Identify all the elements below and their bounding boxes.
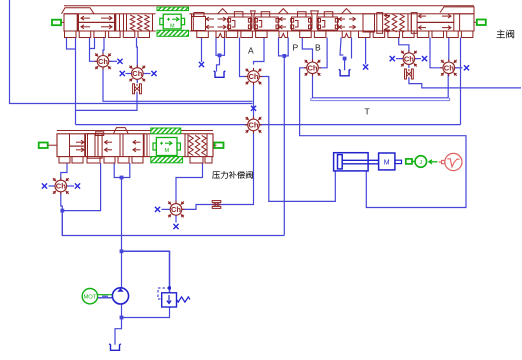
wire A port to Ch3 left: [240, 38, 248, 77]
wire X stub port: [201, 38, 203, 63]
port X stub tank right: [363, 64, 368, 69]
junction comp to pump: [120, 176, 124, 180]
signal source wave: [439, 153, 462, 170]
shaft: [98, 295, 112, 298]
main valve box section: [192, 13, 206, 31]
svg-text:Ch: Ch: [171, 205, 181, 214]
main valve section5 arrows: [417, 7, 454, 30]
port X right of Ch8: [67, 183, 80, 188]
wire pump riser: [122, 163, 130, 288]
main valve spring left: [130, 14, 152, 31]
chamber Ch8: [52, 177, 69, 194]
svg-text:M: M: [165, 148, 170, 154]
chamber Ch4: [304, 59, 321, 76]
wire valve port to Ch7 left: [430, 38, 442, 68]
main valve proportional solenoid green: [156, 6, 190, 37]
main valve spring arrows: [385, 14, 391, 33]
node label T: [365, 107, 370, 117]
main valve right divider: [408, 14, 411, 31]
port X stub end: [199, 62, 204, 67]
compensator top hump: [114, 128, 129, 134]
wire tank branch right second: [351, 38, 353, 59]
main valve section3 arrows: [278, 9, 288, 29]
main valve diamond divider 2: [311, 11, 319, 31]
main valve left hump: [62, 8, 95, 14]
svg-text:Ch: Ch: [98, 57, 108, 66]
svg-text:B: B: [315, 43, 321, 53]
wire B line Ch4 to cylinder rod side: [300, 68, 466, 208]
svg-text:Ch: Ch: [444, 64, 454, 73]
main valve right box1: [363, 14, 375, 32]
compensator valve dividers: [70, 134, 208, 157]
hydraulic cylinder: [334, 153, 379, 171]
wire T return riser left: [75, 38, 77, 125]
main valve section2 arrows: [206, 9, 228, 29]
main valve narrow section: [120, 14, 127, 31]
wire valve port to Ch6 top: [399, 38, 409, 53]
sensor green square: [406, 159, 412, 164]
tank under main valve right: [339, 59, 351, 76]
wire main valve port stub join: [67, 38, 76, 50]
main valve left end cap: [64, 14, 79, 31]
wire P ports merge: [279, 38, 289, 56]
mass block M: [379, 153, 395, 170]
main valve spool box B: [254, 12, 279, 30]
compensator spool box: [88, 132, 104, 158]
junction P merge: [282, 54, 286, 58]
wire T return riser right: [460, 38, 462, 125]
wire pilot bracket Ch4 to Ch7: [313, 74, 449, 98]
wire main valve port to Ch1 left: [90, 38, 98, 62]
port X left of Ch9: [155, 207, 170, 212]
orifice below Ch6: [405, 65, 414, 81]
junction tank mid: [218, 53, 222, 57]
compensator valve arrows: [70, 140, 141, 152]
wire comp valve port to Ch9 top: [176, 163, 203, 203]
wire T return line horizontal: [76, 124, 461, 126]
wire pilot bracket lower duplicate: [311, 98, 450, 101]
chamber Ch7: [440, 59, 457, 76]
wire tank branch under valve: [216, 38, 225, 56]
wire Ch8 node to comp valve: [62, 163, 100, 211]
wire relief valve return: [122, 307, 170, 318]
compensator valve outer frame: [57, 134, 213, 157]
chamber Ch3: [245, 68, 262, 85]
main valve right narrow box: [411, 13, 417, 34]
wire main valve port to Ch1 top: [103, 38, 104, 56]
main valve spool box C: [291, 12, 312, 30]
svg-text:Ch: Ch: [404, 54, 414, 63]
wire A port to Ch3 top: [254, 38, 265, 65]
wire P line down to LS junction: [283, 56, 285, 236]
svg-text:P: P: [293, 43, 299, 53]
wire tank branch drop: [217, 55, 220, 71]
wire relief pilot dashed: [158, 288, 170, 299]
main valve spool box D: [318, 12, 339, 30]
wire Ch3 bottom down through nodes to Ch5: [253, 83, 255, 119]
port X right of Ch2: [144, 71, 157, 76]
wire Ch5 bottom to compensator orifice: [182, 131, 254, 209]
chamber Ch6: [400, 50, 417, 67]
main valve thick bar2: [114, 14, 116, 31]
junction pump bottom: [120, 316, 124, 320]
compensator spring: [189, 135, 207, 155]
main valve spring right: [385, 14, 405, 32]
main valve notch tabs: [216, 31, 351, 38]
wire A line Ch3 to cylinder: [260, 77, 336, 202]
compensator right connector: [213, 143, 224, 149]
svg-text:MOT: MOT: [83, 295, 96, 301]
chamber Ch1: [94, 53, 111, 70]
main valve body band: [64, 14, 474, 31]
chamber Ch2: [129, 65, 146, 82]
wire pump to tank jog: [121, 304, 123, 318]
compensator bottom tabs: [59, 157, 212, 163]
wire pump junction to relief valve: [122, 251, 170, 292]
port X right of Ch6: [415, 56, 427, 61]
node label B: [315, 43, 321, 53]
wire B port to Ch4 right: [320, 38, 328, 68]
port X left of Ch8: [42, 183, 55, 188]
wire comp valve port to Ch8 top: [61, 163, 67, 180]
wire tank drop below pump: [115, 318, 122, 345]
compensator proportional solenoid green: [150, 128, 184, 163]
svg-text:Ch: Ch: [249, 121, 259, 130]
svg-text:M: M: [384, 159, 390, 166]
tank under main valve left: [214, 71, 226, 78]
port X right of Ch1: [110, 59, 123, 64]
port X right of Ch7: [455, 65, 469, 70]
node label P: [293, 43, 299, 53]
main valve diamond divider 1: [251, 11, 256, 31]
wire LS horizontal to Ch8: [62, 213, 284, 236]
svg-text:M: M: [170, 24, 175, 30]
wire B port to Ch4 top: [302, 38, 312, 62]
junction relief pilot: [168, 287, 171, 290]
main valve top rail: [64, 5, 474, 7]
main valve left signal connector: [52, 20, 64, 26]
wire Ch6 orifice to T rail: [409, 81, 521, 88]
chamber Ch5: [245, 116, 262, 133]
compensator top rail: [57, 130, 213, 132]
main valve spool box A: [228, 12, 252, 30]
port X below Ch9: [173, 216, 178, 230]
svg-text:Ch: Ch: [56, 182, 66, 191]
label main valve: [497, 30, 514, 38]
wire Ch2 orifice down to T joint: [76, 95, 138, 110]
svg-text:Ch: Ch: [308, 64, 318, 73]
port X left of Ch6: [390, 56, 403, 61]
wire Ch8 bottom to node: [61, 193, 63, 236]
main valve right signal connector: [474, 20, 486, 26]
wire main valve port to Ch2 top: [136, 38, 139, 68]
relief valve: [162, 293, 190, 307]
svg-text:Ch: Ch: [249, 72, 259, 81]
orifice compensator line: [212, 201, 221, 209]
main valve divider after green: [192, 14, 194, 31]
port X left of Ch2: [120, 71, 131, 76]
wire tank branch right dot: [340, 38, 343, 56]
port X above Ch5: [251, 106, 256, 111]
compensator left connector: [39, 143, 57, 149]
orifice below Ch2: [133, 80, 142, 95]
prime mover MOT: [82, 289, 97, 304]
label pressure compensator: [212, 171, 252, 178]
rotary sensor J: [412, 156, 426, 168]
main valve bottom tabs: [65, 31, 473, 38]
wire left supply from top edge down to T-join: [10, 0, 253, 104]
main valve section1 arrows: [79, 16, 114, 29]
pump: [112, 288, 128, 304]
svg-text:J: J: [419, 160, 422, 166]
wire valve port to Ch7 top: [448, 38, 450, 62]
wire X stub right of tank: [365, 38, 367, 65]
tank below pump: [109, 344, 121, 351]
svg-text:T: T: [365, 107, 370, 117]
svg-text:Ch: Ch: [132, 69, 142, 78]
wire main valve port pair merge: [90, 38, 95, 49]
wire comp valve ports to pump riser: [114, 163, 121, 178]
wire Ch1 bottom to node line: [103, 66, 253, 101]
main valve section4 arrows: [339, 9, 356, 29]
junction tank right: [343, 57, 347, 61]
signal arrow green: [429, 160, 438, 164]
junction pump top: [120, 249, 124, 253]
main valve right end cap: [454, 7, 474, 31]
node label A: [248, 46, 254, 56]
main valve right tall box: [377, 13, 383, 34]
junction Ch8 node: [60, 209, 64, 213]
svg-text:A: A: [248, 46, 254, 56]
mass output stub: [395, 160, 402, 163]
chamber Ch9: [167, 201, 184, 218]
